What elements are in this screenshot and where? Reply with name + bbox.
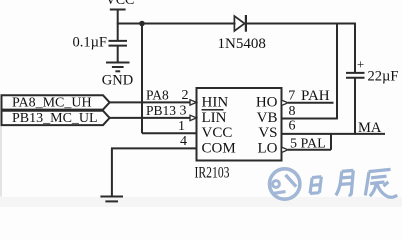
wire [354,24,356,73]
svg-text:7: 7 [288,88,295,103]
svg-text:1N5408: 1N5408 [218,36,266,52]
wire [111,147,197,149]
scan edge artifact [0,125,2,197]
wire [110,101,190,103]
svg-text:5: 5 [290,136,297,151]
svg-text:COM: COM [202,140,236,156]
wire [117,10,119,42]
svg-text:PA8: PA8 [146,87,169,102]
svg-text:VCC: VCC [106,0,135,8]
capacitor C1 0.1uF [72,35,127,51]
pin arrow LIN [190,115,197,120]
connector flag PB13_MC_UL [2,111,110,126]
svg-text:VCC: VCC [202,125,233,141]
wire [110,117,190,119]
pin arrow HO [282,100,289,105]
svg-text:VB: VB [257,110,278,126]
wire [354,78,356,135]
IC U1 IR2103 [195,88,282,182]
wire [111,148,113,196]
ground [100,197,123,202]
watermark char YUE [336,170,354,195]
diode D1 1N5408 [218,15,266,52]
wire [142,132,197,134]
svg-text:VS: VS [258,125,277,141]
svg-text:6: 6 [289,119,296,134]
svg-text:4: 4 [180,134,187,149]
wire [117,46,119,63]
svg-text:22µF: 22µF [368,69,399,85]
svg-text:LIN: LIN [202,110,227,126]
wire [330,134,332,150]
wire [288,149,331,151]
wire [282,118,338,120]
pin arrow HIN [190,100,197,105]
connector flag PA8_MC_UH [2,95,110,110]
svg-text:GND: GND [102,73,133,89]
pin arrow LO [282,147,289,152]
ground GND [102,63,133,89]
wire [141,24,143,134]
wire [336,23,338,120]
power VCC [106,0,135,10]
svg-text:PA8_MC_UH: PA8_MC_UH [12,96,92,111]
watermark char RI [310,177,321,194]
svg-text:1: 1 [178,119,185,134]
watermark logo [270,169,300,199]
svg-text:8: 8 [289,104,296,119]
svg-text:HO: HO [256,94,278,110]
wire [247,23,356,25]
svg-text:0.1µF: 0.1µF [72,35,107,51]
svg-text:MA: MA [358,120,382,136]
wire [282,133,386,135]
junction [139,21,145,27]
svg-text:3: 3 [180,104,187,119]
capacitor C2 22uF [346,57,398,85]
svg-text:PAH: PAH [301,88,330,104]
svg-text:PAL: PAL [301,136,326,151]
svg-text:HIN: HIN [202,94,229,110]
svg-text:LO: LO [258,140,278,156]
svg-text:PB13_MC_UL: PB13_MC_UL [12,111,98,126]
svg-text:2: 2 [182,88,189,103]
svg-text:IR2103: IR2103 [195,165,230,182]
svg-text:+: + [357,57,364,72]
wire [288,102,334,104]
wire [117,23,236,25]
watermark char CHEN [365,169,397,197]
background strip [0,197,402,207]
svg-text:PB13: PB13 [146,103,176,118]
